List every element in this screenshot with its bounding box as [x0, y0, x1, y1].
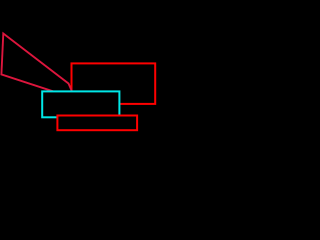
upper red rectangle	[72, 63, 156, 104]
crimson quadrilateral	[1, 34, 75, 99]
cyan rectangle	[42, 91, 119, 117]
lower red rectangle	[57, 116, 137, 131]
